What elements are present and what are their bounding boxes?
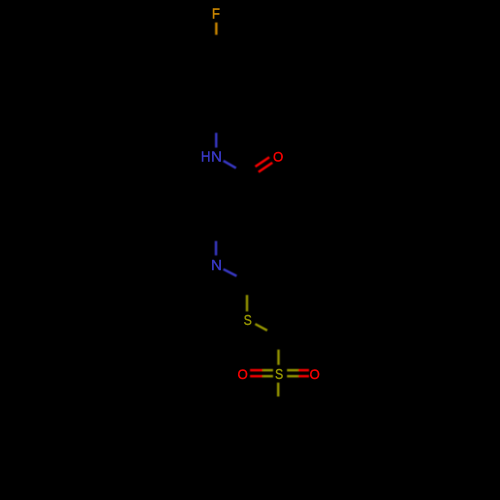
svg-text:S: S: [244, 313, 252, 329]
svg-text:O: O: [310, 367, 320, 382]
svg-text:F: F: [212, 7, 220, 23]
svg-text:H: H: [201, 149, 211, 165]
svg-text:O: O: [273, 149, 283, 164]
svg-text:S: S: [275, 367, 283, 383]
svg-text:O: O: [237, 367, 247, 382]
svg-text:N: N: [211, 149, 222, 165]
svg-text:N: N: [211, 258, 222, 274]
